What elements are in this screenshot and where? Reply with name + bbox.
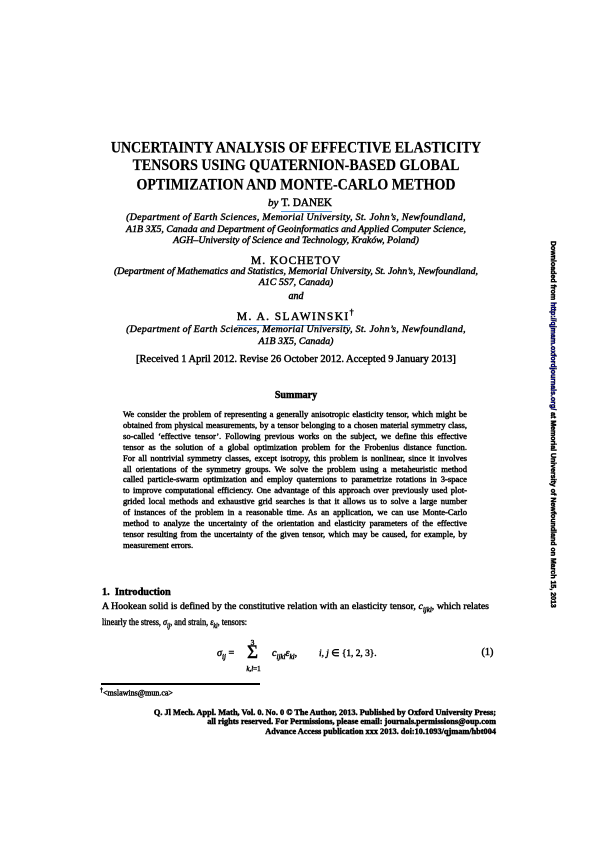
footnote [100, 688, 173, 698]
footer [102, 708, 496, 737]
author 2 [102, 255, 490, 267]
sidebar downloaded-from stamp [549, 241, 556, 608]
affiliation 1 [102, 212, 490, 247]
body paragraph [102, 601, 489, 632]
summary body [123, 409, 467, 551]
affiliation 2 [102, 266, 490, 289]
footnote rule [101, 683, 260, 685]
affiliation 3 [102, 324, 490, 347]
received line [102, 354, 490, 365]
author 3 [102, 308, 490, 323]
equation 1 [102, 632, 489, 662]
section heading [102, 587, 171, 598]
and [102, 291, 490, 302]
title [102, 140, 490, 195]
author 1 [102, 197, 494, 209]
summary heading [102, 390, 490, 401]
